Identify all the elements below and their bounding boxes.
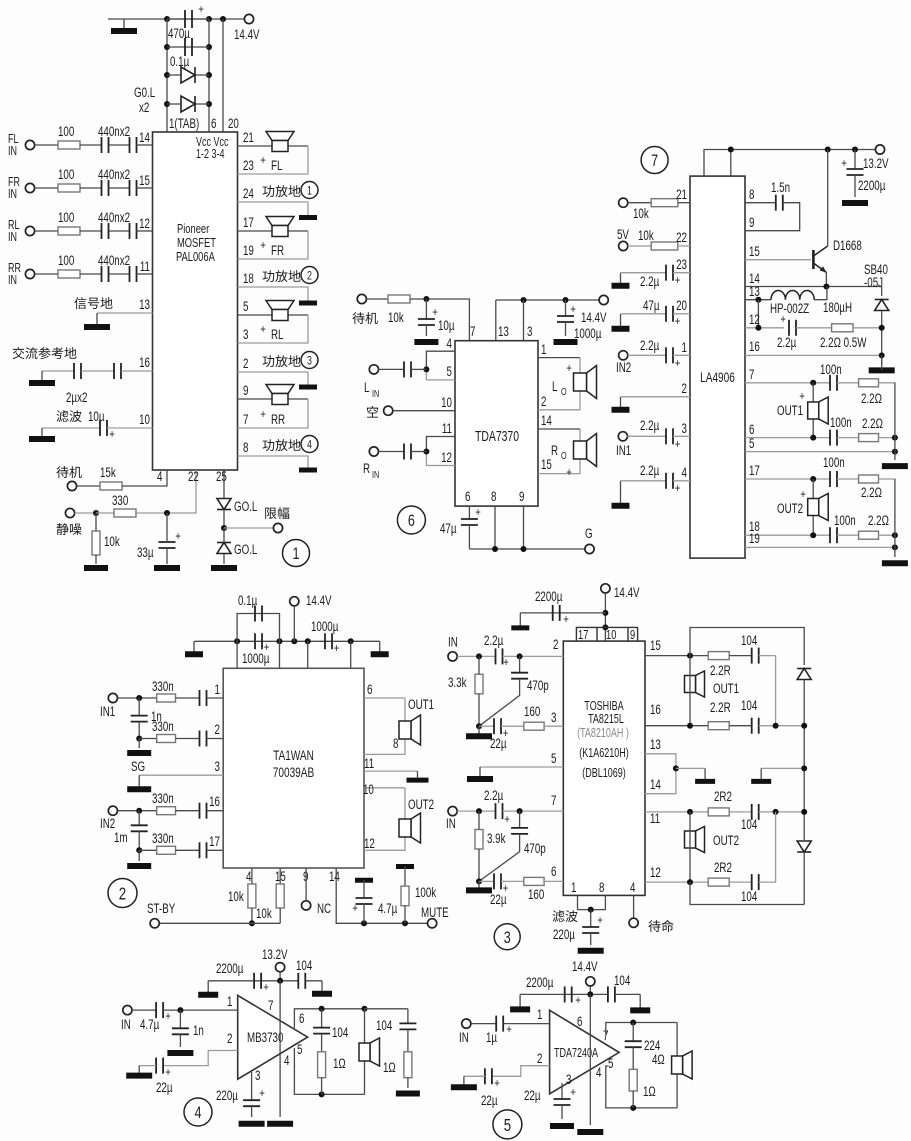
svg-text:HP-002Z: HP-002Z: [770, 300, 809, 316]
circled 3 section marker: [494, 924, 520, 950]
resistor 330n a: [157, 694, 176, 702]
svg-text:17: 17: [749, 462, 760, 478]
zener GO.L top: [217, 499, 231, 510]
wire supply row tda: [520, 993, 608, 995]
junction: [93, 510, 99, 516]
terminal mute: [65, 508, 74, 517]
svg-text:15k: 15k: [100, 464, 116, 480]
svg-text:2.2Ω 0.5W: 2.2Ω 0.5W: [820, 334, 867, 350]
svg-text:5: 5: [504, 1116, 512, 1135]
wire pin6 row ta1wan: [364, 697, 405, 699]
wire 10u drop: [425, 299, 427, 319]
junction: [773, 809, 779, 815]
svg-text:+: +: [675, 315, 681, 328]
speaker RL: [266, 301, 294, 321]
junction: [755, 325, 761, 331]
wire pin16 row: [745, 354, 882, 356]
svg-text:16: 16: [749, 338, 760, 354]
svg-text:2: 2: [243, 355, 248, 371]
svg-text:FL: FL: [271, 157, 283, 173]
svg-text:4: 4: [682, 464, 688, 480]
svg-text:2200µ: 2200µ: [216, 960, 244, 976]
junction: [810, 380, 816, 386]
svg-text:330n: 330n: [152, 718, 174, 734]
wire pin12 row: [645, 881, 708, 883]
svg-text:OUT2: OUT2: [713, 832, 739, 848]
svg-text:1: 1: [682, 339, 687, 355]
wire pin9 drop: [523, 506, 525, 549]
diode SB40-05J: [875, 300, 889, 311]
svg-text:7: 7: [243, 411, 248, 427]
svg-text:8: 8: [393, 735, 399, 751]
svg-text:2: 2: [307, 269, 312, 283]
svg-text:L: L: [552, 378, 558, 394]
junction: [823, 284, 829, 290]
capacitor 2200u ta8215: [553, 605, 560, 621]
svg-text:IN: IN: [372, 388, 379, 399]
label gong-fang-di RR: [262, 439, 300, 451]
wire emitter to pin14 node: [825, 273, 827, 287]
label dai-ji 7370: [352, 312, 377, 324]
svg-text:+: +: [841, 157, 847, 170]
capacitor 2.2u b ta8215: [496, 803, 503, 819]
wire ext z mid mb: [407, 1029, 409, 1051]
speaker FL: [266, 132, 294, 152]
wire 1n to gnd mb: [179, 1034, 181, 1047]
svg-text:12: 12: [139, 215, 150, 231]
wire pin11 row: [645, 811, 708, 813]
wire 1.5n loop: [745, 203, 800, 231]
svg-text:14: 14: [650, 776, 661, 792]
terminal standby ta8215: [629, 918, 638, 927]
svg-text:R: R: [363, 460, 370, 476]
wire bar to 4.7u: [363, 880, 365, 897]
svg-text:+: +: [799, 390, 805, 403]
capacitor 100n d: [830, 527, 837, 543]
svg-text:IN1: IN1: [616, 442, 631, 458]
terminal IN2: [619, 351, 628, 360]
svg-text:17: 17: [209, 833, 220, 849]
ground supply right mb: [312, 981, 332, 994]
diode GO.L lower: [181, 96, 195, 112]
label dai-ming: [648, 920, 673, 932]
capacitor 1000u a ta1wan: [255, 633, 262, 649]
op-amp U6 TDA7370 body: [455, 341, 538, 506]
circled 7 section marker: [641, 147, 668, 174]
svg-text:2200µ: 2200µ: [526, 974, 554, 990]
svg-text:ST-BY: ST-BY: [147, 900, 175, 916]
wire cap to pin1 mb: [163, 1009, 238, 1011]
svg-text:100: 100: [58, 123, 75, 139]
wire 22u a row: [479, 725, 494, 727]
svg-text:1: 1: [571, 879, 576, 895]
terminal FR IN: [25, 183, 34, 192]
svg-text:+: +: [563, 613, 569, 626]
svg-text:2: 2: [537, 1050, 542, 1066]
circled ground number FR: [301, 267, 318, 284]
svg-text:14: 14: [329, 868, 340, 884]
svg-text:3: 3: [682, 420, 688, 436]
svg-text:TDA7370: TDA7370: [475, 428, 519, 444]
resistor 330: [114, 509, 136, 517]
svg-text:104: 104: [741, 697, 758, 713]
svg-text:TA1WAN: TA1WAN: [273, 747, 314, 763]
svg-text:RL: RL: [271, 326, 284, 342]
svg-text:2.2µ: 2.2µ: [640, 273, 659, 289]
ground supply left tda: [510, 994, 530, 1009]
label lv-bo: [57, 410, 82, 422]
wire OUT2 vertical: [812, 479, 814, 535]
capacitor 4.7u mb: [156, 1002, 163, 1018]
junction: [602, 610, 608, 616]
wire out loop bot tda: [606, 1066, 677, 1108]
wire pin18 row: [745, 534, 830, 536]
capacitor 2200u tda: [565, 986, 572, 1002]
wire in tda: [471, 1023, 496, 1025]
wire FR input: [35, 187, 58, 189]
wire res to cap a: [729, 655, 752, 657]
junction: [423, 296, 429, 302]
svg-text:11: 11: [650, 810, 660, 826]
svg-text:22: 22: [188, 468, 199, 484]
svg-text:+: +: [503, 656, 509, 669]
resistor 3.9k: [475, 830, 483, 850]
wire 104a to vert: [759, 655, 776, 657]
wire 14.4V bus 7370: [496, 299, 604, 301]
ground 1m ta1wan: [127, 863, 151, 869]
svg-text:8: 8: [491, 488, 497, 504]
svg-text:+: +: [566, 362, 572, 375]
wire 10k to pin22: [678, 245, 690, 247]
junction: [221, 525, 227, 531]
wire to limiter terminal: [224, 527, 273, 529]
resistor 15k: [100, 482, 122, 490]
wire RL input: [35, 230, 58, 232]
ground bus right: [371, 641, 389, 654]
speaker OUT1 ta8215: [685, 671, 705, 697]
svg-text:2.2Ω: 2.2Ω: [862, 415, 883, 431]
capacitor 22u pin3 tda: [554, 1099, 571, 1105]
terminal IN mb: [123, 1006, 132, 1015]
svg-text:2.2µ: 2.2µ: [640, 417, 659, 433]
resistor 2R2 a: [708, 808, 729, 816]
wire pin2 jog mb: [164, 1051, 238, 1066]
capacitor 22u tda: [485, 1068, 492, 1084]
svg-text:IN2: IN2: [616, 359, 631, 375]
wire pin13 signal ground: [97, 312, 153, 314]
circled 6 section marker: [397, 506, 425, 534]
resistor 330n d: [157, 846, 176, 854]
junction: [164, 44, 170, 50]
capacitor 440n b (FL): [130, 137, 137, 153]
svg-text:13: 13: [139, 296, 150, 312]
speaker RR: [266, 385, 294, 405]
svg-text:GO.L: GO.L: [234, 498, 258, 514]
svg-text:10k: 10k: [638, 227, 654, 243]
capacitor 470u: [185, 10, 192, 28]
svg-text:100k: 100k: [415, 884, 436, 900]
wire cap to pin23: [673, 272, 690, 274]
wire 3.9k top: [478, 811, 480, 829]
ground 1n mb: [167, 1050, 193, 1056]
ground pin4 tda: [577, 1129, 603, 1135]
junction: [277, 978, 283, 984]
wire FR to pin 15: [137, 187, 153, 189]
wire to 330: [96, 512, 114, 514]
svg-text:TA8215L: TA8215L: [588, 713, 624, 727]
junction: [588, 907, 594, 913]
wire pin3 row ta1wan: [139, 774, 223, 776]
terminal kong: [384, 406, 393, 415]
wire 470p b drop: [519, 811, 521, 828]
wire zener2 to gnd: [223, 554, 225, 564]
wire pin5 stub: [426, 369, 455, 380]
svg-text:Pioneer: Pioneer: [177, 223, 209, 237]
svg-text:5: 5: [608, 1055, 614, 1071]
wire 224 mid tda: [632, 1047, 634, 1069]
capacitor 1n ta1wan: [131, 716, 148, 722]
wire top supply bus: [108, 18, 249, 20]
capacitor in1 a: [200, 690, 207, 706]
junction: [801, 723, 807, 729]
wire pin11 stub: [426, 437, 455, 452]
svg-text:22µ: 22µ: [524, 1087, 541, 1103]
wire RR to pin 11: [137, 273, 153, 275]
wire pin3 drop tda: [561, 1083, 563, 1099]
svg-text:G: G: [585, 525, 593, 541]
wire in a: [457, 655, 495, 657]
wire 1n to pin2 row: [138, 722, 140, 739]
resistor 330n c: [157, 807, 176, 815]
svg-text:11: 11: [140, 258, 150, 274]
svg-text:2.2R: 2.2R: [710, 662, 731, 678]
svg-text:2R2: 2R2: [714, 859, 732, 875]
wire 0.1u row: [167, 46, 209, 48]
wire 22u pin3 to gnd: [561, 1105, 563, 1119]
svg-text:13: 13: [498, 323, 509, 339]
wire pin 18 ground run: [238, 287, 309, 301]
ground 1n ta1wan: [127, 750, 151, 756]
wire RR input: [35, 273, 58, 275]
wire cap to pin20: [673, 313, 690, 315]
junction: [291, 638, 297, 644]
ground 220u mb: [239, 1121, 265, 1127]
ground mute: [84, 565, 108, 571]
resistor 100k ta1wan: [401, 886, 409, 906]
wire speaker loop FR: [238, 231, 309, 259]
svg-text:+: +: [675, 482, 681, 495]
svg-text:+: +: [675, 274, 681, 287]
capacitor 2.2u IN2: [666, 347, 673, 363]
junction: [810, 476, 816, 482]
wire 14.4V drop tda: [589, 986, 591, 994]
svg-text:4.7µ: 4.7µ: [140, 1016, 159, 1032]
svg-text:16: 16: [209, 793, 220, 809]
svg-text:D1668: D1668: [833, 237, 862, 253]
capacitor 104 c: [752, 804, 759, 820]
capacitor in2 b: [200, 842, 207, 858]
svg-text:104: 104: [614, 972, 631, 988]
svg-text:47µ: 47µ: [643, 297, 660, 313]
svg-text:5: 5: [551, 750, 557, 766]
wire 33u top: [166, 513, 168, 542]
wire out1 loop ta1wan: [364, 698, 405, 754]
diode right top: [797, 669, 811, 680]
wire d to cap: [176, 849, 200, 851]
svg-text:2µx2: 2µx2: [66, 389, 87, 405]
junction: [164, 101, 170, 107]
wire res to cap d: [729, 881, 752, 883]
svg-text:10k: 10k: [633, 205, 649, 221]
svg-text:2.2µ: 2.2µ: [484, 787, 503, 803]
wire right rail top: [881, 287, 883, 297]
svg-text:2200µ: 2200µ: [535, 588, 563, 604]
terminal RL IN: [25, 226, 34, 235]
svg-text:160: 160: [524, 703, 541, 719]
capacitor 1n mb: [172, 1028, 189, 1034]
junction: [362, 1006, 368, 1012]
svg-text:470p: 470p: [527, 677, 549, 693]
terminal limiter: [273, 523, 282, 532]
wire pin4 drop ta8215: [633, 895, 635, 918]
diode right bottom: [797, 841, 811, 852]
svg-text:6: 6: [577, 1013, 583, 1029]
junction: [810, 532, 816, 538]
junction: [277, 638, 283, 644]
wire pin 21 to speaker FL: [238, 145, 309, 147]
wire 2200u row ta8215: [520, 612, 605, 614]
svg-text:330n: 330n: [152, 830, 174, 846]
label gong-fang-di FL: [262, 185, 300, 197]
wire RR between caps: [109, 273, 130, 275]
ground in b ta8215: [466, 881, 492, 890]
resistor 330n b: [157, 735, 176, 743]
wire between 2u caps: [81, 370, 114, 372]
wire 100k to rail: [404, 906, 406, 924]
capacitor 47u 7370: [461, 519, 478, 525]
svg-text:0.1µ: 0.1µ: [170, 53, 189, 69]
svg-text:6: 6: [299, 1010, 305, 1026]
svg-text:+: +: [780, 313, 786, 326]
wire to out rail 2 bot: [879, 534, 895, 536]
wire 160 to pin6: [544, 880, 563, 882]
ground pin4 mb: [267, 1121, 293, 1127]
svg-text:23: 23: [676, 256, 687, 272]
svg-text:5: 5: [749, 435, 755, 451]
svg-text:+: +: [675, 438, 681, 451]
svg-text:RR: RR: [271, 411, 285, 427]
wire pin12 stub: [426, 452, 455, 466]
ground power FL: [299, 215, 317, 220]
wire pin14 drop ta1wan: [336, 868, 427, 923]
wire 470p a drop: [519, 656, 521, 672]
wire 1n drop: [138, 698, 140, 716]
svg-text:1µ: 1µ: [486, 1029, 497, 1045]
wire 0.1u loop: [237, 614, 279, 642]
op-amp U2 TA1WAN 70039AB body: [223, 668, 364, 868]
wire 470p diag b: [479, 834, 520, 882]
ground pin3 tda: [550, 1123, 574, 1129]
svg-text:13: 13: [650, 736, 661, 752]
wire to out rail 2 top: [879, 478, 896, 480]
wire 220u to gnd: [590, 933, 592, 945]
wire pin3 row 4906: [628, 435, 667, 437]
wire 2200u drop: [854, 150, 856, 170]
svg-text:4: 4: [195, 1103, 202, 1122]
capacitor 10u: [100, 420, 107, 436]
wire 104 to gnd mb: [305, 980, 322, 982]
wire pin7 riser ta1wan: [236, 641, 238, 668]
ground pin4 4906: [612, 481, 630, 506]
circled 4 section marker: [184, 1098, 212, 1126]
svg-text:220µ: 220µ: [553, 926, 575, 942]
svg-text:IN: IN: [121, 1016, 131, 1032]
svg-text:19: 19: [243, 242, 254, 258]
svg-text:O: O: [561, 450, 567, 461]
svg-text:10k: 10k: [388, 309, 404, 325]
ground 2200u 4906: [842, 200, 868, 206]
wire zobel mid: [796, 327, 832, 329]
wire b to cap: [176, 738, 200, 740]
terminal FL IN: [25, 140, 34, 149]
wire FR to caps: [80, 187, 101, 189]
wire ext zobel mb: [407, 1009, 409, 1024]
junction: [521, 297, 527, 303]
junction: [136, 695, 142, 701]
wire top bus ta1wan: [195, 640, 380, 642]
svg-text:2.2µ: 2.2µ: [777, 334, 796, 350]
junction: [630, 1020, 636, 1026]
ground out rail 1: [882, 463, 908, 469]
wire to 2.2ohm c: [837, 478, 859, 480]
svg-text:20: 20: [228, 115, 239, 131]
capacitor 100n b: [830, 430, 837, 446]
svg-text:2R2: 2R2: [714, 788, 732, 804]
resistor 100 (FR): [58, 184, 80, 192]
svg-text:22µ: 22µ: [490, 735, 507, 751]
wire pin20 rail: [222, 19, 224, 132]
wire RL to pin 12: [137, 230, 153, 232]
junction: [892, 435, 898, 441]
capacitor 1000u b ta1wan: [325, 633, 332, 649]
capacitor 440n a (RR): [102, 266, 109, 282]
svg-text:6: 6: [551, 863, 557, 879]
capacitor 104 a: [752, 648, 759, 664]
wire pin3 riser: [523, 300, 525, 341]
terminal IN2 ta1wan: [108, 806, 117, 815]
svg-text:6: 6: [211, 115, 217, 131]
wire pin12 vertical link: [757, 300, 759, 328]
terminal NC: [302, 901, 311, 910]
wire pin11b row ta1wan: [364, 770, 418, 772]
svg-text:15: 15: [541, 456, 552, 472]
wire pin13 row 4906: [745, 299, 771, 301]
svg-text:22µ: 22µ: [490, 891, 507, 907]
capacitor 2200u 4906: [847, 169, 864, 175]
junction: [801, 765, 807, 771]
junction: [476, 723, 482, 729]
wire 22u to gnd mb: [139, 1065, 156, 1067]
wire RL between caps: [109, 230, 130, 232]
svg-text:470µ: 470µ: [168, 25, 190, 41]
capacitor 2.2u pin4: [666, 473, 673, 489]
terminal standby 7370: [357, 294, 366, 303]
junction: [402, 920, 408, 926]
svg-text:IN2: IN2: [100, 815, 115, 831]
svg-text:440nx2: 440nx2: [98, 123, 130, 139]
svg-text:IN1: IN1: [100, 703, 115, 719]
svg-text:21: 21: [676, 186, 687, 202]
